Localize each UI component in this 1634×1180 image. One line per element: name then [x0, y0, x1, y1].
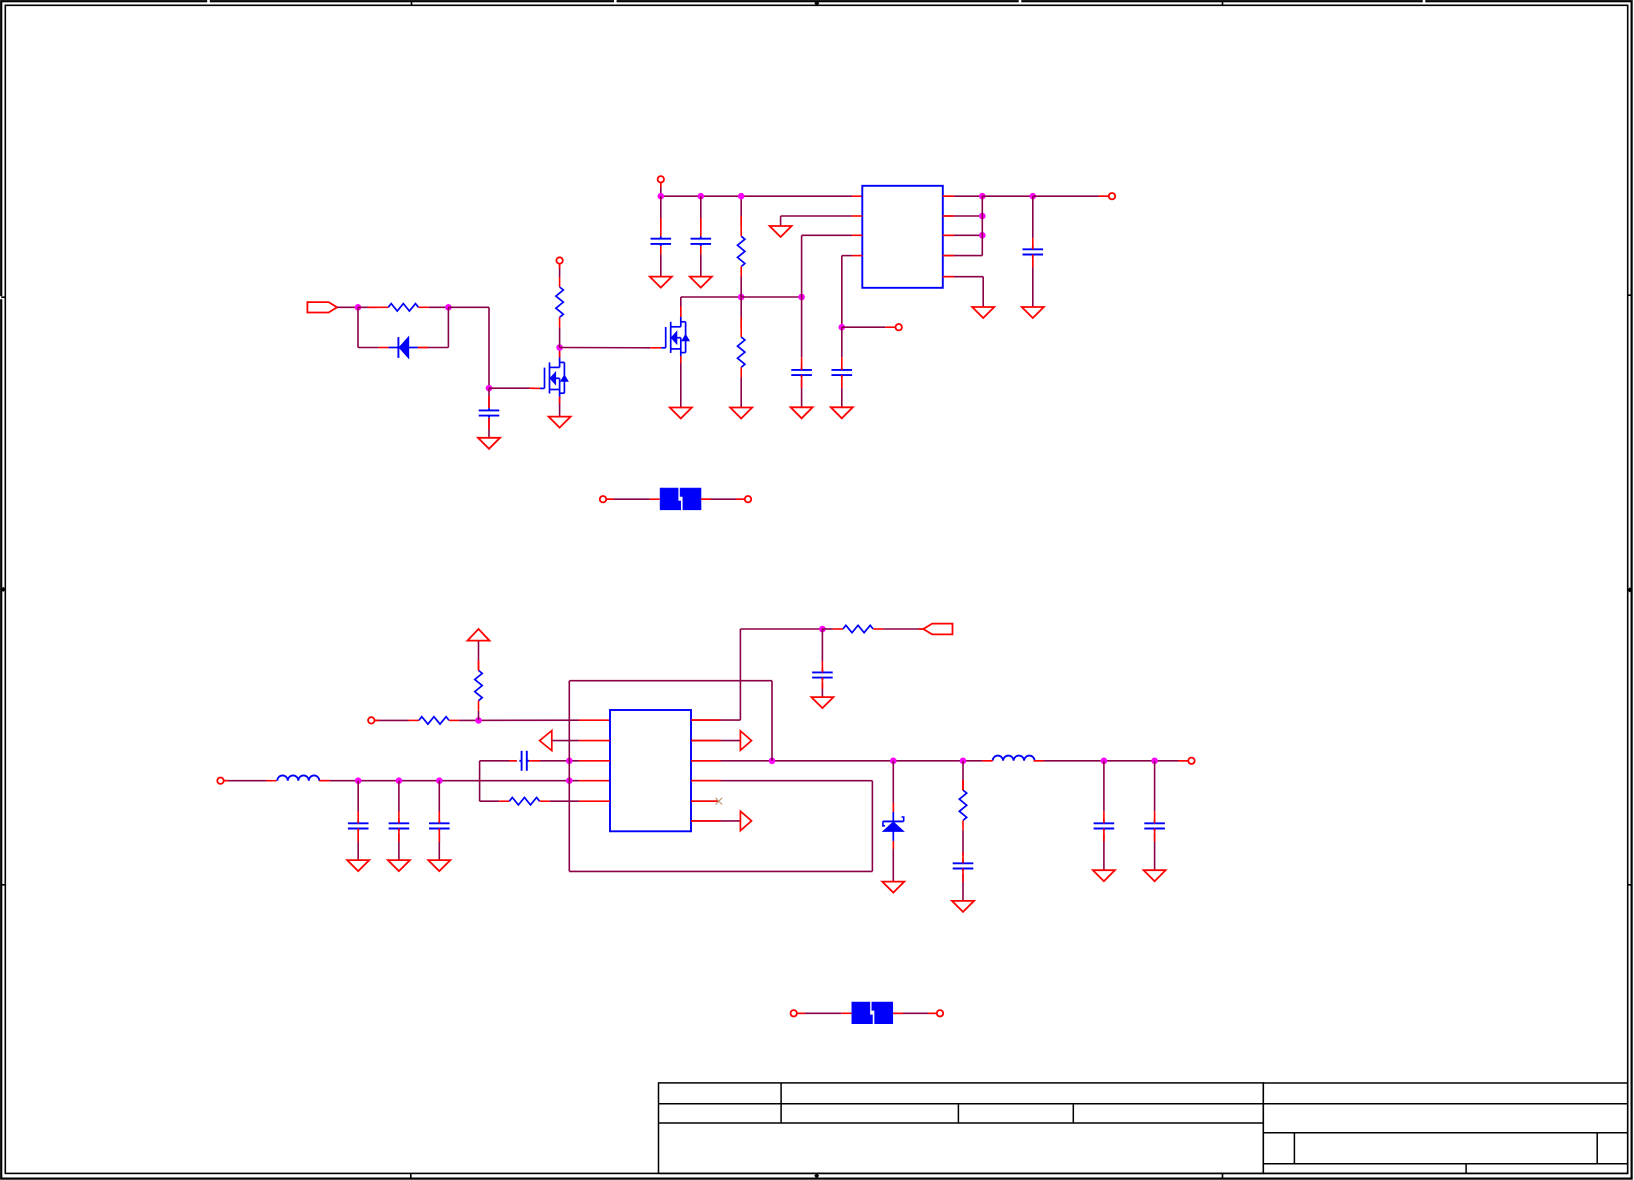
- wire R2 to node D: [559, 327, 561, 347]
- ground: [388, 860, 410, 871]
- ground: [811, 697, 833, 708]
- IC U1: [862, 186, 943, 288]
- ground: [670, 408, 692, 419]
- wire rail to L2: [982, 760, 992, 762]
- ground: [549, 417, 571, 428]
- wire Q2 source to ground: [680, 356, 682, 407]
- diode D1: [389, 337, 418, 358]
- wire C4 to ground: [801, 380, 803, 407]
- wire rail to C14: [1154, 761, 1156, 821]
- junction node Q2n: [1151, 758, 1158, 765]
- wire pin4 down to node G: [841, 256, 843, 328]
- port node IN1: [368, 717, 374, 723]
- junction node P0: [769, 758, 776, 765]
- capacitor C4: [791, 365, 812, 380]
- wire rail to C1: [660, 196, 662, 228]
- ground: [770, 226, 792, 237]
- ground: [650, 277, 672, 288]
- wire C8 to ground: [398, 834, 400, 861]
- port J2 flag: [923, 624, 952, 635]
- resistor R8: [833, 625, 883, 632]
- wire Q2 drain up: [680, 297, 682, 317]
- capacitor C6: [1023, 244, 1044, 259]
- capacitor C14: [1144, 818, 1165, 833]
- resistor R6: [475, 660, 482, 710]
- wire R3 to node E: [740, 277, 742, 298]
- wire R7 to U2 pin5: [550, 800, 610, 802]
- capacitor C8: [389, 818, 410, 833]
- port node VOUT: [1109, 193, 1115, 199]
- wire R8 to port flag: [883, 628, 923, 630]
- ground: [1093, 870, 1115, 881]
- wire C12 to ground: [962, 874, 964, 901]
- wire rail to R9: [962, 761, 964, 790]
- wire C13 to ground: [1103, 834, 1105, 871]
- wire rail to C2: [700, 196, 702, 228]
- wire U1 pin out3: [943, 234, 983, 236]
- wire D2 to ground: [892, 841, 894, 882]
- port node F1B: [745, 496, 751, 502]
- ground: [690, 277, 712, 288]
- junction node D: [556, 344, 563, 351]
- wire node H to node I: [982, 195, 1033, 197]
- capacitor C2: [691, 228, 712, 254]
- wire U2 pin10 stub: [691, 800, 719, 802]
- title block left section: [659, 1083, 1264, 1174]
- ground: [831, 407, 853, 418]
- junction node K1: [355, 777, 362, 784]
- wire port down: [660, 182, 662, 196]
- wire node C to C3: [488, 388, 490, 408]
- wire arrow to U2 pin2: [552, 740, 610, 742]
- resistor R9: [959, 780, 966, 830]
- wire C5 to ground: [841, 380, 843, 407]
- port J1 input flag: [307, 302, 337, 312]
- wire node B to node C: [448, 307, 489, 388]
- wire C14 to ground: [1154, 834, 1156, 871]
- wire U2 pin9 loop around: [569, 681, 872, 872]
- junction node Q1n: [1101, 758, 1108, 765]
- fuse F1: [660, 488, 701, 510]
- junction node K4: [566, 777, 573, 784]
- wire node A down to D1: [358, 307, 389, 347]
- wire C11 to ground: [821, 683, 823, 698]
- wire node G to port: [842, 326, 896, 328]
- wire power to R6: [478, 641, 480, 670]
- wire rail to C7: [357, 781, 359, 821]
- wire node I to C6: [1032, 196, 1034, 246]
- junction node H: [979, 193, 986, 200]
- resistor R5: [409, 717, 460, 724]
- wire U2 pin7 to arrow: [691, 740, 740, 742]
- ground: [952, 901, 974, 912]
- port node IN2: [217, 778, 223, 784]
- wire U1 pin2 to ground branch: [781, 215, 863, 217]
- wire C10 to U2 pin3: [529, 760, 610, 762]
- wire F2 to port: [893, 1012, 937, 1014]
- junction node G: [839, 324, 846, 331]
- junction node E: [738, 294, 745, 301]
- wire port to R2: [559, 264, 561, 277]
- junction node A: [355, 304, 362, 311]
- wire R9 to C12: [962, 830, 964, 860]
- junction rail 2: [698, 193, 705, 200]
- wire F1 to port: [701, 498, 745, 500]
- wire node E to R4: [740, 297, 742, 327]
- resistor R2: [556, 277, 563, 327]
- junction node F: [798, 294, 805, 301]
- wire U2 pin11 to arrow: [691, 820, 740, 822]
- port node VIN: [658, 176, 664, 182]
- capacitor C9: [429, 818, 450, 833]
- wire node A to R1: [358, 306, 378, 308]
- wire node N to C11: [821, 629, 823, 670]
- junction node B: [445, 304, 452, 311]
- capacitor C11: [812, 667, 833, 682]
- wire C1 to ground: [660, 254, 662, 276]
- wire port to R5: [374, 719, 408, 721]
- wire node F to C4: [801, 297, 803, 367]
- wire port to F2: [797, 1012, 852, 1014]
- wire C10 around to R7: [480, 761, 517, 801]
- wire port to F1: [606, 498, 660, 500]
- junction rail 3: [738, 193, 745, 200]
- wire rail to C13: [1103, 761, 1105, 821]
- capacitor C13: [1094, 818, 1115, 833]
- wire C9 to ground: [438, 834, 440, 861]
- resistor R7: [509, 798, 549, 805]
- junction node P1: [890, 758, 897, 765]
- wire U1 pin out2: [943, 215, 983, 217]
- wire pin3 down to node F: [801, 235, 803, 297]
- wire C7 to ground: [357, 834, 359, 861]
- wire node G to C5: [841, 327, 843, 367]
- resistor R3: [738, 226, 745, 276]
- port node OUT: [1188, 758, 1194, 764]
- port node EN: [896, 324, 902, 330]
- junction node J: [475, 717, 482, 724]
- ground: [347, 860, 369, 871]
- wire R6 to node J: [478, 711, 480, 721]
- wire node N to R8: [822, 628, 833, 630]
- ground: [478, 438, 500, 449]
- wire U2 pin6 up to node N: [691, 629, 822, 720]
- wire Q2 drain to node E: [681, 296, 741, 298]
- wire node I to port: [1033, 195, 1109, 197]
- wire Q1 source to ground: [559, 397, 561, 417]
- ground: [428, 860, 450, 871]
- inductor L2: [993, 756, 1035, 761]
- wire U1 pin out4 up to node H: [943, 196, 983, 255]
- off-page arrow node C2: [740, 811, 751, 830]
- port node F1A: [600, 496, 606, 502]
- wire node C to Q1 gate: [489, 387, 540, 389]
- wire node D to Q2 gate: [560, 347, 662, 349]
- off-page arrow node A2: [540, 731, 552, 751]
- capacitor C7: [348, 818, 369, 833]
- power flag VCC: [468, 629, 490, 641]
- junction node C: [486, 385, 493, 392]
- junction: [979, 213, 986, 220]
- wire L1 to U2 pin4: [319, 780, 610, 782]
- wire R1 to node B: [429, 306, 449, 308]
- capacitor C12: [953, 858, 974, 873]
- wire U1 pin3: [802, 234, 863, 236]
- wire port to node A: [337, 306, 358, 308]
- capacitor C3: [479, 408, 500, 418]
- no-connect X: [715, 798, 722, 805]
- junction node I: [1030, 193, 1037, 200]
- port node F2A: [791, 1010, 797, 1016]
- wire ground branch down: [780, 216, 782, 226]
- wire node E to node F: [741, 296, 801, 298]
- wire R5 to U2 pin1: [459, 719, 610, 721]
- fuse F2: [852, 1002, 893, 1024]
- wire rail to D2: [892, 761, 894, 812]
- ground: [791, 407, 813, 418]
- ground: [1022, 307, 1044, 318]
- resistor R1: [378, 304, 429, 311]
- port node VG: [556, 257, 562, 263]
- ground: [730, 408, 752, 419]
- wire U2 pin8 output rail: [691, 760, 982, 762]
- wire U1 pin5 to ground: [943, 277, 983, 307]
- junction node P2: [960, 758, 967, 765]
- junction node K2: [396, 777, 403, 784]
- wire D1 to node B: [418, 307, 449, 347]
- junction node K3: [436, 777, 443, 784]
- wire L2 to output port: [1034, 760, 1189, 762]
- wire port to L1: [224, 780, 277, 782]
- junction: [979, 232, 986, 239]
- capacitor C5: [832, 365, 853, 380]
- wire rail to C9: [438, 781, 440, 821]
- off-page arrow node B2: [740, 731, 751, 750]
- resistor R4: [738, 327, 745, 377]
- wire R4 to ground: [740, 377, 742, 407]
- ground: [1144, 870, 1166, 881]
- junction rail 1: [658, 193, 665, 200]
- wire rail to C8: [398, 781, 400, 821]
- wire U1 out pin to node H: [943, 195, 983, 197]
- junction node N: [819, 626, 826, 633]
- wire Q1 drain to node D: [559, 348, 561, 358]
- wire C2 to ground: [700, 254, 702, 276]
- wire top rail to U1: [661, 195, 862, 197]
- junction node M: [566, 758, 573, 765]
- zener diode D2: [883, 812, 904, 841]
- transistor Q1: [540, 358, 568, 397]
- port node F2B: [937, 1010, 943, 1016]
- inductor L1: [277, 775, 319, 780]
- title block right section: [1263, 1083, 1627, 1173]
- wire rail to R3: [740, 196, 742, 226]
- wire C6 to ground: [1032, 260, 1034, 308]
- wire C3 to ground: [488, 418, 490, 438]
- capacitor C1: [651, 228, 672, 254]
- capacitor C10: [519, 751, 529, 771]
- IC U2: [610, 710, 691, 831]
- wire U1 pin4: [842, 255, 863, 257]
- ground: [972, 307, 994, 318]
- ground: [882, 882, 904, 893]
- transistor Q2: [661, 317, 689, 356]
